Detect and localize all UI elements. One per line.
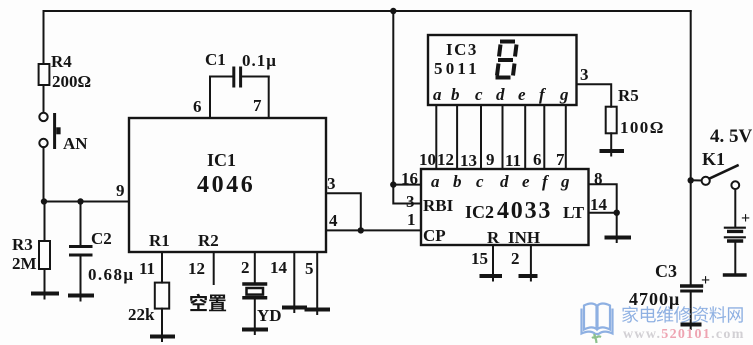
wire pin14 to ground	[616, 213, 618, 237]
resistor 22k	[155, 283, 169, 309]
wire IC2 pin2 down	[530, 245, 532, 276]
wire seg-e	[524, 105, 526, 169]
resistor R4	[39, 64, 50, 85]
svg-text:1: 1	[407, 210, 416, 229]
op IC2 box	[421, 169, 589, 245]
svg-text:c: c	[475, 85, 483, 104]
svg-text:16: 16	[401, 169, 418, 188]
svg-text:200Ω: 200Ω	[52, 72, 91, 91]
node pin3-4 junction	[358, 227, 364, 233]
svg-text:C2: C2	[91, 229, 112, 248]
wire K1 to battery	[734, 189, 736, 227]
watermark logo book	[582, 304, 613, 344]
wire C3 to ground	[690, 291, 692, 324]
capacitor C3	[682, 286, 702, 291]
svg-text:R: R	[487, 228, 500, 247]
resistor R3	[39, 241, 50, 269]
svg-text:e: e	[522, 172, 530, 191]
svg-text:R4: R4	[51, 52, 72, 71]
svg-text:R1: R1	[149, 231, 170, 250]
svg-text:RBI: RBI	[423, 196, 454, 215]
svg-text:f: f	[542, 172, 550, 191]
battery end bar	[725, 273, 746, 276]
svg-text:d: d	[500, 172, 509, 191]
svg-text:AN: AN	[63, 134, 88, 153]
buzzer YD	[244, 284, 266, 298]
svg-text:+: +	[701, 272, 710, 289]
svg-text:13: 13	[460, 151, 477, 170]
svg-text:IC3: IC3	[446, 40, 478, 59]
svg-text:2M: 2M	[12, 254, 37, 273]
svg-text:22k: 22k	[128, 305, 155, 324]
wire IC1 pin4 to IC2 CP	[326, 229, 421, 231]
wire IC1 pin6 up	[209, 77, 211, 119]
svg-text:12: 12	[437, 150, 454, 169]
svg-text:11: 11	[139, 259, 155, 278]
svg-text:R2: R2	[198, 231, 219, 250]
pushbutton AN	[39, 113, 60, 148]
svg-text:e: e	[518, 85, 526, 104]
svg-text:4046: 4046	[197, 172, 255, 198]
wire battery down	[734, 243, 736, 275]
battery B1	[725, 228, 745, 241]
node R3 junction	[41, 198, 47, 204]
svg-text:IC2: IC2	[465, 202, 494, 222]
svg-text:3: 3	[580, 65, 589, 84]
svg-text:14: 14	[590, 195, 608, 214]
svg-text:3: 3	[327, 174, 336, 193]
node pin16 junction	[390, 181, 396, 187]
svg-text:0.1μ: 0.1μ	[242, 51, 277, 70]
svg-text:4. 5V: 4. 5V	[710, 126, 753, 147]
ground pin15	[482, 276, 501, 281]
svg-text:14: 14	[270, 258, 288, 277]
wire IC2 pin8 bracket	[589, 184, 617, 212]
svg-text:5: 5	[305, 259, 314, 278]
svg-text:6: 6	[533, 150, 542, 169]
wire IC2 pin16 bracket	[393, 185, 421, 204]
wire top rail	[44, 11, 691, 64]
svg-text:R5: R5	[618, 86, 639, 105]
svg-text:5011: 5011	[434, 59, 480, 78]
capacitor C2	[71, 247, 92, 256]
svg-text:a: a	[431, 172, 440, 191]
wire IC1 pin3 out	[326, 193, 361, 230]
wire to R3	[44, 202, 46, 242]
svg-text:INH: INH	[508, 228, 540, 247]
wire R3 to ground	[44, 269, 46, 293]
svg-text:6: 6	[193, 97, 202, 116]
label 空置 vacant	[190, 294, 226, 312]
wire IC2 pin15 down	[492, 245, 494, 276]
ground C3	[683, 325, 700, 330]
wire seg-f	[543, 105, 545, 169]
svg-text:IC1: IC1	[207, 150, 236, 170]
wire IC1 pin7 up	[268, 77, 270, 119]
wire seg-b	[456, 105, 458, 169]
node top junction	[390, 8, 396, 14]
wire to C2	[80, 202, 82, 247]
svg-text:11: 11	[505, 151, 521, 170]
wire IC1 pin14 down	[293, 252, 295, 307]
svg-text:C1: C1	[205, 50, 226, 69]
svg-text:15: 15	[471, 249, 488, 268]
svg-text:CP: CP	[423, 226, 446, 245]
wire seg-a	[435, 105, 437, 169]
wire node row to IC1 pin9	[44, 201, 130, 203]
svg-text:b: b	[453, 172, 462, 191]
node pin14 junction	[614, 210, 620, 216]
svg-text:0.68μ: 0.68μ	[88, 265, 134, 284]
wire R4 to button	[43, 85, 45, 113]
svg-text:4700μ: 4700μ	[629, 289, 680, 309]
wire IC1 pin11 down	[161, 252, 163, 283]
svg-text:K1: K1	[702, 149, 725, 169]
ground 22k	[152, 337, 173, 342]
svg-text:LT: LT	[563, 203, 585, 222]
svg-text:4033: 4033	[497, 198, 552, 224]
svg-text:100Ω: 100Ω	[620, 118, 665, 137]
wire seg-d	[502, 105, 504, 169]
op IC1 box	[129, 118, 326, 252]
svg-text:4: 4	[329, 211, 338, 230]
wire 22k to ground	[161, 309, 163, 336]
svg-text:R3: R3	[12, 235, 33, 254]
watermark text	[622, 306, 743, 323]
wire C1 top left	[210, 76, 233, 78]
ground pin14	[284, 308, 305, 313]
svg-text:C3: C3	[655, 261, 677, 281]
svg-text:9: 9	[486, 150, 495, 169]
svg-text:f: f	[539, 85, 547, 104]
node C2 junction	[77, 198, 83, 204]
op IC3 box	[428, 35, 577, 105]
svg-text:8: 8	[594, 169, 603, 188]
svg-text:10: 10	[419, 150, 436, 169]
svg-text:7: 7	[253, 96, 262, 115]
svg-text:b: b	[451, 85, 460, 104]
ground C2	[70, 296, 92, 301]
svg-text:2: 2	[241, 258, 250, 277]
wire IC1 pin2 down	[254, 252, 256, 283]
svg-text:c: c	[476, 172, 484, 191]
svg-text:g: g	[559, 85, 569, 104]
ground R3	[33, 294, 57, 299]
svg-text:g: g	[560, 172, 570, 191]
capacitor C1	[234, 68, 241, 86]
svg-text:12: 12	[188, 259, 205, 278]
ground pin2	[521, 276, 536, 281]
wire C1 top right	[242, 76, 269, 78]
svg-text:7: 7	[556, 150, 565, 169]
switch K1	[691, 166, 739, 190]
svg-text:9: 9	[116, 181, 125, 200]
wire seg-g	[565, 105, 567, 169]
svg-text:a: a	[433, 85, 442, 104]
wire IC3 pin3 to R5	[577, 84, 612, 106]
svg-text:d: d	[496, 85, 505, 104]
ground R5	[602, 151, 623, 156]
wire right rail	[690, 11, 692, 285]
display digit 8	[496, 42, 517, 78]
resistor R5	[606, 107, 617, 134]
wire IC1 pin5 down	[316, 252, 318, 309]
wire C2 to ground	[80, 255, 82, 295]
svg-text:YD: YD	[257, 306, 282, 325]
ground pin14 IC2	[607, 238, 630, 243]
svg-text:3: 3	[406, 192, 415, 211]
svg-text:2: 2	[511, 249, 520, 268]
wire YD to ground	[254, 299, 256, 329]
svg-text:www.520101.com: www.520101.com	[623, 327, 745, 342]
svg-text:+: +	[741, 210, 750, 227]
ground YD	[244, 330, 266, 335]
wire button to node row	[43, 147, 45, 201]
wire top branch to IC2 pin16	[392, 11, 394, 185]
wire seg-c	[480, 105, 482, 169]
wire R5 to ground	[610, 133, 612, 150]
node K1 junction	[688, 177, 694, 183]
ground pin5	[307, 310, 329, 315]
wire IC1 pin12 down	[213, 252, 215, 284]
